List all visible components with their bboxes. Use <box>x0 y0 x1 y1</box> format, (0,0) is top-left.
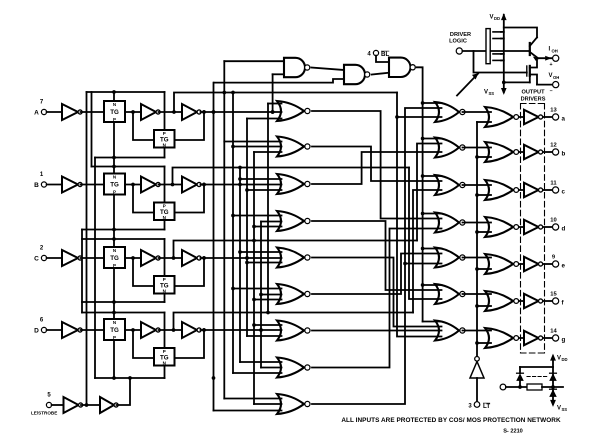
VSS arrow <box>484 88 506 96</box>
LE bus wire 2 <box>91 92 93 167</box>
wire gate input stub <box>233 288 282 290</box>
svg-text:ALL INPUTS ARE PROTECTED B: ALL INPUTS ARE PROTECTED BY COS/ MOS PRO… <box>341 417 561 424</box>
NAND gate N2 <box>344 65 370 84</box>
wire BL to H3 <box>421 174 442 178</box>
NOR gate H2 <box>435 138 465 158</box>
svg-text:P: P <box>113 335 116 340</box>
wire gate input stub <box>254 151 282 153</box>
wire C pin to inverter <box>47 257 62 259</box>
inverter B2 <box>141 177 160 193</box>
inverter B3 <box>182 177 201 193</box>
transmission gate TGA2 <box>154 130 175 148</box>
inverter C3 <box>182 250 201 266</box>
output pin 15 (f) <box>550 292 564 307</box>
wire Q'D to H3 <box>413 190 442 313</box>
wire H5 to K5 <box>463 257 492 259</box>
wire G5 to H7 <box>312 258 442 327</box>
wire inverter A2 to inverter A3 <box>159 111 183 113</box>
wire TGB1 output <box>125 183 141 187</box>
wire Q4 gate <box>474 51 527 73</box>
wire gate input stub <box>240 361 282 363</box>
bus wire m1-v1 <box>212 83 216 411</box>
NOR gate G3 <box>277 174 310 194</box>
svg-text:V: V <box>484 90 488 96</box>
svg-text:12: 12 <box>550 143 556 149</box>
wire LT to K4 <box>475 230 491 234</box>
wire gate input stub <box>233 146 282 148</box>
wire BL to H6 <box>421 283 442 287</box>
input pin 7 (A) <box>34 100 46 117</box>
wire gate input stub <box>254 324 282 326</box>
wire LE junction on bus <box>212 376 216 380</box>
svg-text:d: d <box>562 225 566 232</box>
wire LT to K3 <box>475 193 491 197</box>
wire BL to H7 <box>423 321 442 323</box>
inverter A3 <box>182 104 201 120</box>
wire gate input stub <box>247 189 282 191</box>
svg-text:10: 10 <box>550 218 556 224</box>
input pin 2 (C) <box>34 246 46 263</box>
inverter A1 <box>62 104 82 120</box>
wire TGD1 output <box>125 328 141 332</box>
wire G1 to H4 <box>312 111 442 219</box>
svg-text:TG: TG <box>110 327 119 334</box>
wire gate input stub <box>240 251 282 253</box>
output pin 10 (d) <box>550 218 565 233</box>
output pin 9 (e) <box>552 255 566 270</box>
wire G3 to H2 <box>312 152 442 184</box>
input pin 3 (LT) <box>468 402 490 410</box>
NOR gate K5 <box>485 254 519 274</box>
wire H3 to K3 <box>463 184 492 186</box>
transmission gate TGC1 <box>104 247 125 268</box>
svg-text:BL: BL <box>381 51 389 58</box>
note text <box>341 417 561 424</box>
wire inverter B2 to inverter B3 <box>159 184 183 186</box>
wire TGA2 output to node <box>175 110 206 140</box>
wire BL to H1 <box>421 101 442 105</box>
svg-text:N: N <box>113 320 116 325</box>
bus wire m1-v2 <box>222 61 226 398</box>
wire gate input stub <box>261 221 282 223</box>
wire G8 to H4 <box>312 229 442 368</box>
wire gate input stub <box>268 103 282 105</box>
transmission gate TGD1 <box>104 319 125 340</box>
LE line junction <box>128 376 132 380</box>
svg-text:P: P <box>113 190 116 195</box>
transmission gate TGC2 <box>154 276 175 294</box>
bus wire m1-v6 <box>252 152 256 404</box>
protection input terminal <box>500 384 506 390</box>
wire N3 output / BL bus <box>417 67 423 321</box>
wire H7 to K7 <box>463 330 492 332</box>
TG control column wire <box>113 92 115 378</box>
wire gate input stub <box>247 335 282 337</box>
wire LT to K5 <box>475 267 491 271</box>
wire driver input <box>462 50 485 52</box>
svg-text:OUTPUT: OUTPUT <box>522 90 546 96</box>
wire G4 to H6 <box>312 221 442 290</box>
NOR gate G1 <box>277 101 310 121</box>
wire vdd to collector <box>504 28 537 38</box>
wire H1 to K1 <box>463 111 492 113</box>
NOR gate K4 <box>485 217 519 237</box>
wire BL to H2 <box>421 137 442 141</box>
bus wire m1-v7 <box>259 222 263 368</box>
wire A pin to inverter <box>47 111 62 113</box>
inverter B1 <box>62 177 82 193</box>
input pin 5 (LE/STROBE) <box>31 393 57 416</box>
wire K4 to driver <box>520 226 525 228</box>
wire gate input stub <box>214 410 282 412</box>
svg-text:V: V <box>557 406 561 412</box>
wire G7 to H7 direct <box>312 330 442 332</box>
svg-text:N: N <box>163 215 166 220</box>
wire BL to H4 <box>421 212 442 216</box>
NOR gate G5 <box>277 248 310 268</box>
svg-text:SS: SS <box>562 407 568 412</box>
svg-text:a: a <box>562 115 566 122</box>
wire G9 to H5 and H1 <box>312 108 442 404</box>
wire K6 to driver <box>520 300 525 302</box>
svg-text:A: A <box>34 109 39 116</box>
wire K5 to driver <box>520 263 525 265</box>
wire gate input stub <box>233 215 282 217</box>
wire vss rail bottom <box>502 76 530 84</box>
wire BL to H5 <box>421 247 442 251</box>
svg-text:C: C <box>34 255 39 262</box>
bus wire m1-v5 <box>245 119 249 337</box>
NOR gate K7 <box>485 328 519 348</box>
nmos transistor Q4 <box>527 60 537 85</box>
NOR gate H7 <box>435 321 465 341</box>
NOR gate H3 <box>435 175 465 195</box>
wire Q'C to H2 <box>417 144 442 241</box>
NOR gate H1 <box>435 102 465 122</box>
wire gate input stub <box>247 262 282 264</box>
output driver buffer d <box>524 220 552 234</box>
transmission gate TGA1 <box>104 101 125 122</box>
bus wire m1-v8 <box>266 104 270 315</box>
svg-text:LOGIC: LOGIC <box>449 39 467 45</box>
svg-text:TG: TG <box>110 109 119 116</box>
feedback wire to TGB2 <box>133 185 154 213</box>
svg-text:B: B <box>34 182 39 189</box>
NAND gate N3 <box>389 58 415 77</box>
latch control line 4 <box>82 220 165 232</box>
wire N2 bottom input <box>214 79 344 83</box>
svg-text:P: P <box>113 263 116 268</box>
feedback wire to TGA2 <box>133 112 154 140</box>
feedback wire to TGD2 <box>133 330 154 358</box>
svg-text:LE/STROBE: LE/STROBE <box>31 411 57 416</box>
wire TGA1 output <box>125 110 141 114</box>
svg-text:N: N <box>113 174 116 179</box>
NOR gate H6 <box>435 284 465 304</box>
svg-text:P: P <box>163 203 166 208</box>
wire LT to K6 <box>475 304 491 308</box>
transistor Q3 <box>530 37 538 60</box>
wire inverter LE2 up to latch control <box>117 378 131 405</box>
svg-text:b: b <box>562 150 566 157</box>
wire inverter D2 to inverter D3 <box>159 329 183 331</box>
inverter LE1 <box>64 397 83 413</box>
svg-text:DD: DD <box>562 357 568 362</box>
svg-text:V: V <box>557 356 561 362</box>
inverter D1 <box>62 322 82 338</box>
pmos transistor Q1 <box>493 32 504 39</box>
svg-text:D: D <box>34 327 39 334</box>
svg-text:P: P <box>163 131 166 136</box>
wire inverter B1 to TG <box>81 184 105 186</box>
dashed wire protection <box>527 376 547 378</box>
wire gate input stub <box>240 178 282 180</box>
output pin 12 (b) <box>550 143 565 158</box>
inverter D3 <box>182 322 201 338</box>
output pin 13 (a) <box>550 108 565 123</box>
svg-text:14: 14 <box>550 329 557 335</box>
svg-text:DRIVERS: DRIVERS <box>521 97 546 103</box>
svg-text:g: g <box>562 336 566 343</box>
wire N1 output to N2 <box>312 68 345 71</box>
transmission gate TGB2 <box>154 203 175 221</box>
buffer LT <box>470 357 484 379</box>
wire gate input stub <box>247 118 282 120</box>
inverter A2 <box>141 104 160 120</box>
svg-text:DD: DD <box>494 16 500 21</box>
VDD terminal protection <box>551 355 568 404</box>
NOR gate G6 <box>277 284 310 304</box>
input pin 4 (BL) <box>367 50 389 57</box>
wire inverter output to Q3 base <box>491 50 530 52</box>
wire gate input stub <box>254 226 282 228</box>
transmission gate TGB1 <box>104 174 125 195</box>
IOH terminal <box>538 47 559 69</box>
wire Q'A to H7 <box>397 93 442 337</box>
wire LT to K1 <box>477 121 491 123</box>
wire TGB2 output to node <box>175 183 206 213</box>
wire Q'A branch to H1 <box>395 115 441 119</box>
NOR gate H4 <box>435 213 465 233</box>
NOR gate H5 <box>435 248 465 268</box>
wire Q' tap row 4 <box>172 313 413 332</box>
bus wire m1-v4 <box>238 166 242 362</box>
svg-text:P: P <box>113 117 116 122</box>
wire N1 bottom input <box>273 73 284 75</box>
svg-text:N: N <box>113 248 116 253</box>
nmos transistor Q2 <box>493 54 504 61</box>
svg-text:OH: OH <box>552 48 558 53</box>
wire gate input stub <box>254 299 282 301</box>
wire latch output to G3 <box>201 183 282 187</box>
LE' bus wire <box>86 92 88 405</box>
output driver buffer b <box>524 145 552 159</box>
svg-text:e: e <box>562 262 566 269</box>
wire inverter LE1 to LE2 <box>81 403 100 407</box>
wire BL pin to N3 <box>376 56 389 62</box>
wire G6 to H5 <box>312 254 442 295</box>
svg-text:LT: LT <box>483 403 490 410</box>
wire gate input stub <box>254 403 282 405</box>
transmission gate TGD2 <box>154 348 175 366</box>
svg-text:13: 13 <box>550 108 557 114</box>
wire inverter C2 to inverter C3 <box>159 257 183 259</box>
svg-text:TG: TG <box>110 182 119 189</box>
svg-text:P: P <box>163 277 166 282</box>
latch control line 8 <box>95 365 165 380</box>
gate electrode <box>486 29 490 64</box>
arrow pointer to driver <box>457 74 478 96</box>
wire TGD2 output to node <box>175 328 206 358</box>
wire H6 to K6 <box>463 293 492 295</box>
svg-text:15: 15 <box>550 292 557 298</box>
inverter D2 <box>141 322 160 338</box>
wire latch output to G7 <box>201 328 282 332</box>
NOR gate K1 <box>485 107 519 127</box>
svg-text:TG: TG <box>110 255 119 262</box>
input pin 1 (B) <box>34 172 46 189</box>
svg-text:+: + <box>549 62 552 68</box>
svg-text:V: V <box>490 15 494 21</box>
output pin 11 (c) <box>550 181 565 196</box>
wire gate input stub <box>261 367 282 369</box>
LT bus wire <box>476 122 478 358</box>
drawing number <box>503 429 523 435</box>
latch control line 5 <box>82 237 165 276</box>
wire TGC1 output <box>125 256 141 260</box>
svg-text:N: N <box>163 289 166 294</box>
inverter LE2 <box>100 397 118 413</box>
svg-text:N: N <box>163 143 166 148</box>
output driver buffer c <box>524 183 552 197</box>
output pin 14 (g) <box>550 329 565 344</box>
label output drivers <box>521 90 546 103</box>
wire Q' tap row 1 <box>172 93 397 114</box>
output driver buffer a <box>524 110 552 124</box>
feedback wire to TGC2 <box>133 258 154 286</box>
wire Q' tap row 3 <box>172 241 417 260</box>
NOR gate G4 <box>277 211 310 231</box>
protection diode D1 <box>517 367 524 387</box>
wire LT to K2 <box>475 155 491 159</box>
driver logic input terminal <box>456 48 462 54</box>
latch control line 1 <box>87 90 165 130</box>
latch control line 6 <box>82 293 165 304</box>
output driver buffer g <box>524 331 552 345</box>
VSS terminal protection <box>551 400 568 412</box>
LE bus wire 4 <box>81 230 83 313</box>
svg-text:SS: SS <box>489 91 495 96</box>
LE bus wire 3 <box>94 158 96 379</box>
svg-text:N: N <box>113 102 116 107</box>
wire TGC2 output to node <box>175 256 206 286</box>
bus wire m1-v9 <box>271 74 275 114</box>
wire G9 branch to H5 <box>405 263 442 265</box>
wire latch output to G5 <box>201 256 282 260</box>
wire H2 to K2 <box>463 147 492 149</box>
wire LT to K7 <box>475 341 491 345</box>
wire Q' tap row 2 <box>171 168 409 187</box>
wire Q'B to H6 <box>409 168 442 300</box>
wire inverter A1 to TG <box>81 111 105 113</box>
VDD rail <box>490 14 507 92</box>
wire H4 to K4 <box>463 222 492 224</box>
bus wire m1-v3 <box>231 91 235 373</box>
svg-text:11: 11 <box>550 181 557 187</box>
latch control line 3 <box>92 165 165 203</box>
svg-text:OH: OH <box>553 75 559 80</box>
protection series resistor <box>506 384 563 390</box>
wire N1 top input <box>224 60 284 62</box>
latch control line 2 <box>95 147 165 159</box>
NOR gate K2 <box>485 142 519 162</box>
svg-text:S- 2210: S- 2210 <box>503 429 523 435</box>
wire N2 output to N3 <box>372 73 389 75</box>
wire gate input stub <box>224 398 281 400</box>
NOR gate G8 <box>277 358 310 378</box>
wire K1 to driver <box>520 116 525 118</box>
NOR gate G7 <box>277 321 310 341</box>
inverter C2 <box>141 250 160 266</box>
wire latch output to G1 <box>201 110 282 114</box>
wire K7 to driver <box>520 337 525 339</box>
input pin 6 (D) <box>34 318 46 335</box>
svg-text:DRIVER: DRIVER <box>450 32 471 38</box>
wire gate input stub <box>224 141 281 143</box>
wire gate input stub <box>233 372 282 374</box>
NAND gate N1 <box>284 58 310 77</box>
svg-text:c: c <box>562 188 566 195</box>
wire LT pin to buffer <box>476 378 478 401</box>
output driver buffer e <box>524 257 552 271</box>
wire protection top <box>520 366 553 368</box>
protection diode D3 <box>550 389 557 396</box>
label driver logic <box>449 32 471 44</box>
svg-text:V: V <box>549 73 553 79</box>
wire D pin to inverter <box>47 329 62 331</box>
wire G2 to H3 <box>312 147 442 182</box>
svg-text:N: N <box>163 361 166 366</box>
VOH terminal <box>537 73 559 95</box>
wire K3 to driver <box>520 189 525 191</box>
wire inverter C1 to TG <box>81 257 105 259</box>
wire B pin to inverter <box>47 184 62 186</box>
svg-text:P: P <box>163 349 166 354</box>
wire gate input stub <box>261 294 282 296</box>
NOR gate K6 <box>485 291 519 311</box>
wire inverter D1 to TG <box>81 329 105 331</box>
NOR gate G9 <box>277 394 310 414</box>
NOR gate G2 <box>277 137 310 157</box>
latch control line 7 <box>82 311 165 348</box>
inverter C1 <box>62 250 82 266</box>
dashed box output drivers <box>521 104 545 354</box>
NOR gate K3 <box>485 180 519 200</box>
svg-text:−: − <box>549 89 552 95</box>
wire LE pin to inverter <box>52 404 64 406</box>
wire K2 to driver <box>520 151 525 153</box>
output driver buffer f <box>524 294 552 308</box>
protection diode D2 <box>550 373 557 380</box>
